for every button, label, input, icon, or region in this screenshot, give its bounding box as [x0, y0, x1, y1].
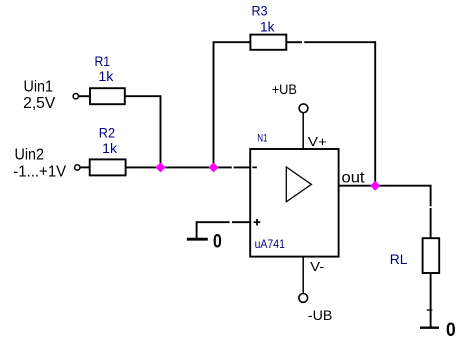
svg-text:1k: 1k: [102, 140, 118, 156]
svg-text:R1: R1: [95, 53, 111, 69]
pin label + (non-inverting): [254, 219, 261, 226]
resistor R2: [90, 159, 126, 175]
wire: [214, 41, 251, 43]
pin end tick: [427, 309, 433, 311]
op-amp U1 body: [250, 149, 338, 257]
input terminal Uin1: [73, 94, 78, 99]
wire: [304, 41, 375, 43]
junction node at R1/R2: [156, 162, 166, 172]
terminal +UB: [299, 104, 308, 113]
svg-text:Uin2: Uin2: [15, 147, 45, 164]
svg-text:R3: R3: [252, 3, 268, 19]
wire: [160, 95, 162, 167]
wire: [79, 95, 90, 97]
wire: [430, 273, 432, 328]
svg-text:-1...+1V: -1...+1V: [13, 164, 66, 181]
wire output: [339, 185, 431, 187]
pin V-: [302, 257, 304, 294]
wire: [430, 208, 432, 238]
wire: [125, 95, 161, 97]
resistor R1: [90, 88, 125, 104]
svg-text:1k: 1k: [98, 68, 114, 84]
ground bar (right): [420, 327, 439, 329]
svg-text:0: 0: [446, 319, 456, 341]
wire: [374, 41, 376, 185]
svg-text:0: 0: [213, 231, 222, 253]
svg-text:Uin1: Uin1: [24, 79, 54, 96]
svg-text:+UB: +UB: [272, 81, 297, 97]
svg-text:2,5V: 2,5V: [23, 95, 56, 112]
svg-text:RL: RL: [390, 251, 408, 267]
resistor R3: [250, 35, 286, 50]
pin label - (inverting): [252, 166, 257, 168]
wire: [286, 41, 302, 43]
svg-text:-UB: -UB: [308, 307, 333, 323]
op-amp triangle: [286, 167, 311, 202]
svg-text:out: out: [342, 170, 366, 187]
wire: [234, 166, 251, 168]
input terminal Uin2: [75, 165, 80, 170]
svg-text:1k: 1k: [260, 19, 275, 35]
resistor RL: [423, 238, 440, 273]
junction node at R3/inverting input: [209, 162, 219, 172]
svg-text:R2: R2: [99, 124, 115, 140]
wire: [196, 221, 198, 238]
junction node out: [370, 181, 380, 191]
wire: [430, 185, 432, 207]
svg-text:V+: V+: [308, 134, 327, 149]
wire: [197, 221, 230, 223]
wire: [213, 41, 215, 167]
svg-text:uA741: uA741: [255, 237, 286, 251]
wire: [80, 166, 90, 168]
svg-text:V-: V-: [310, 259, 324, 274]
terminal -UB: [299, 294, 308, 303]
svg-text:N1: N1: [257, 132, 267, 144]
wire non-inverting input: [232, 221, 250, 223]
wire: [126, 166, 232, 168]
ground bar (left): [187, 238, 208, 241]
pin V+: [302, 113, 304, 149]
